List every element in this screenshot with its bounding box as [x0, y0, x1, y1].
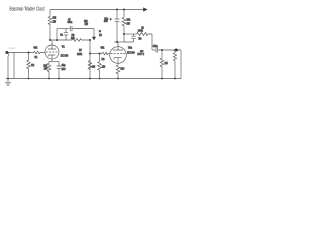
wire input — [8, 52, 33, 54]
ground bus — [6, 78, 181, 80]
svg-text:BCP 2: BCP 2 — [137, 54, 144, 56]
svg-text:out: out — [140, 50, 144, 53]
wire jack sleeve — [7, 57, 9, 79]
svg-text:ECC83: ECC83 — [61, 55, 69, 57]
node gnd R3 — [28, 78, 30, 80]
wire jack contact — [13, 53, 15, 79]
svg-text:2k2: 2k2 — [84, 21, 88, 23]
wire plate rail V1 — [50, 39, 72, 41]
wire plate node V2 — [114, 41, 124, 43]
resistor R12 — [173, 50, 176, 79]
wire out line right — [158, 49, 181, 51]
svg-text:Bassman 'Master Class': Bassman 'Master Class' — [10, 7, 46, 13]
node input — [28, 52, 30, 54]
capacitor C8 470n — [156, 47, 158, 52]
wire B+ top rail — [50, 9, 145, 11]
svg-text:33k: 33k — [101, 48, 106, 50]
arrow down node — [92, 37, 96, 41]
node C6 plate — [116, 41, 118, 43]
svg-text:R1: R1 — [35, 57, 39, 59]
wire grid V2 — [90, 53, 102, 55]
svg-text:V2: V2 — [99, 35, 103, 37]
tube V2 cathode — [114, 58, 122, 59]
svg-text:470n: 470n — [67, 22, 73, 24]
svg-text:1M: 1M — [102, 66, 105, 68]
node gnd C1 — [58, 78, 60, 80]
tube V1 plate — [48, 40, 56, 49]
node mixer — [99, 53, 101, 55]
tube V2 plate — [113, 42, 123, 50]
svg-text:1M: 1M — [165, 63, 168, 65]
wire right edge — [180, 50, 182, 79]
wire to arrow — [93, 29, 95, 38]
svg-text:1k: 1k — [141, 28, 144, 30]
svg-text:R8: R8 — [102, 59, 106, 61]
resistor R4 1k5 2W — [48, 16, 52, 25]
resistor R1 68k — [34, 51, 46, 54]
node rail-R6 — [123, 9, 125, 11]
svg-text:100k: 100k — [138, 30, 144, 32]
resistor R6 10k — [122, 10, 126, 43]
svg-text:R9: R9 — [139, 39, 143, 41]
node gnd R2 — [48, 78, 50, 80]
node A — [49, 39, 51, 41]
wire signal top — [57, 28, 70, 30]
out arrow — [176, 48, 179, 52]
resistor R7 220k — [88, 61, 92, 71]
wire dropper top — [49, 10, 51, 17]
resistor R10 820 — [116, 65, 120, 79]
resistor R9 100k — [137, 32, 153, 35]
tube V2 envelope — [110, 47, 127, 64]
resistor R2 — [47, 62, 51, 79]
resistor R13 1M — [98, 54, 102, 79]
svg-text:to: to — [99, 30, 102, 33]
node gnd R13 — [99, 78, 101, 80]
wire cathode V1 — [51, 55, 53, 62]
wire cathode V2 — [117, 58, 119, 65]
svg-text:Input: Input — [9, 46, 16, 50]
svg-text:25µ: 25µ — [62, 65, 67, 67]
tube V1 cathode — [48, 55, 55, 56]
jack J1 — [5, 51, 8, 54]
node out1 — [161, 49, 163, 51]
svg-text:2W: 2W — [127, 23, 131, 25]
svg-text:1W: 1W — [85, 24, 89, 26]
wire R9 feed — [124, 33, 137, 35]
svg-text:820: 820 — [120, 68, 125, 70]
wire out riser — [151, 34, 153, 50]
B+ arrow — [143, 7, 147, 11]
tube V2 grid — [111, 53, 127, 55]
wire signal top right — [73, 28, 95, 30]
wire dropper bottom — [49, 25, 51, 40]
resistor R3 1M — [27, 53, 31, 79]
resistor R11 1M — [160, 50, 164, 79]
ground symbol — [5, 79, 11, 86]
svg-text:V1: V1 — [62, 47, 66, 49]
node gnd jack — [7, 78, 9, 80]
node rail-C6 — [116, 9, 118, 11]
resistor R5 82k — [72, 39, 90, 42]
svg-text:10k: 10k — [127, 19, 132, 21]
svg-text:R7: R7 — [79, 50, 83, 52]
capacitor C6 22u450V — [115, 10, 120, 43]
capacitor C3 1n — [64, 29, 68, 41]
svg-text:2W: 2W — [53, 22, 57, 24]
wire signal riser — [56, 29, 58, 41]
svg-text:2W: 2W — [44, 69, 48, 71]
svg-text:V2a: V2a — [128, 47, 133, 49]
wire out line — [152, 49, 156, 51]
tube V1 grid — [46, 51, 58, 53]
node gnd R10 — [117, 78, 119, 80]
tube V1 envelope — [45, 45, 59, 59]
node feed R9 — [123, 33, 125, 35]
node plate V1 — [56, 39, 58, 41]
svg-text:1k5: 1k5 — [53, 18, 57, 20]
capacitor C7 — [124, 34, 136, 42]
wire grid divider V2 — [89, 40, 91, 79]
svg-text:ECC83: ECC83 — [127, 52, 135, 54]
svg-text:1M: 1M — [92, 66, 95, 68]
node B — [89, 39, 91, 41]
resistor R8 33k — [102, 52, 110, 55]
svg-text:1n: 1n — [60, 34, 63, 36]
svg-text:+: + — [110, 17, 112, 21]
svg-text:68k: 68k — [34, 48, 39, 50]
svg-text:1M: 1M — [31, 65, 34, 67]
svg-text:25V: 25V — [62, 69, 67, 71]
svg-text:450: 450 — [104, 21, 109, 23]
node gnd R12 — [174, 78, 176, 80]
node gnd R7 — [89, 78, 91, 80]
capacitor C2 22n — [70, 26, 72, 31]
svg-text:82k: 82k — [71, 38, 76, 40]
svg-text:220k: 220k — [77, 54, 83, 56]
node grid V2 — [89, 53, 91, 55]
wire cathode split — [49, 61, 59, 63]
node out2 — [174, 49, 176, 51]
svg-text:470n: 470n — [153, 46, 159, 48]
node gnd R11 — [161, 78, 163, 80]
capacitor C1 — [57, 62, 62, 79]
